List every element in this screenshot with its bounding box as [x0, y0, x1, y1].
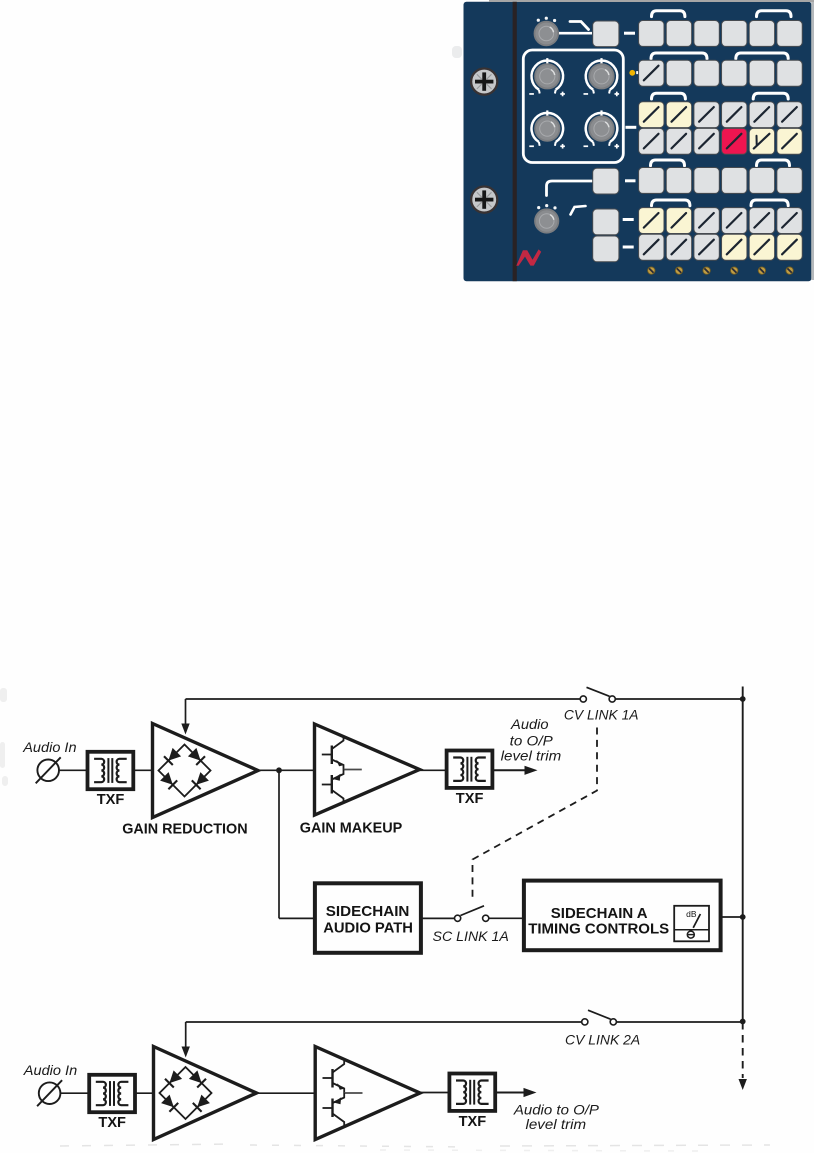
- transformer input TXF A: [88, 752, 134, 789]
- gain reduction amplifier B: [154, 1047, 257, 1140]
- switch button row5 col3: [694, 168, 719, 194]
- bracket row1 cols1-2: [652, 11, 685, 17]
- svg-text:to O/P: to O/P: [510, 733, 553, 748]
- link dash row6: [623, 218, 634, 221]
- switch button row3 col1: [639, 102, 664, 128]
- svg-text:TIMING CONTROLS: TIMING CONTROLS: [528, 920, 669, 937]
- gain makeup amplifier A: [315, 724, 420, 815]
- switch button row2 col6: [777, 60, 802, 86]
- switch button row6 col1: [639, 208, 664, 234]
- switch button row3 col5: [749, 102, 774, 128]
- switch button row3 col3: [694, 102, 719, 128]
- wire CV bus vertical: [742, 699, 744, 1022]
- indicator dots above knob K1: [537, 17, 557, 23]
- wire output A: [492, 769, 526, 771]
- scan edge sliver right: [811, 2, 814, 280]
- panel fixing screw bottom col2: [675, 267, 682, 274]
- wire switch to timing controls: [489, 917, 524, 919]
- bracket row6 cols5-6: [751, 200, 788, 206]
- arrowhead CV bus down: [739, 1079, 747, 1090]
- wire sidechain drop A: [278, 770, 280, 918]
- diode D2B: [189, 1070, 206, 1087]
- svg-text:GAIN REDUCTION: GAIN REDUCTION: [122, 821, 247, 838]
- label level trim B: [526, 1117, 587, 1132]
- indicator dots above knob K6: [537, 204, 557, 209]
- knob K2: [535, 64, 559, 88]
- label SIDECHAIN A: [551, 905, 648, 922]
- gain makeup amplifier B: [315, 1047, 420, 1140]
- svg-text:TXF: TXF: [98, 1114, 126, 1131]
- label AUDIO PATH: [323, 919, 413, 936]
- label TXF: [459, 1113, 487, 1130]
- label Audio In A: [22, 740, 76, 755]
- input connector audio input B: [37, 1080, 62, 1106]
- switch button row2 col5: [749, 60, 774, 86]
- knob group outline box: [523, 50, 623, 163]
- svg-text:CV LINK 1A: CV LINK 1A: [564, 708, 639, 723]
- diode D4A: [192, 772, 209, 789]
- bracket row1 cols5-6: [757, 11, 792, 17]
- switch button row1 col6: [777, 21, 802, 47]
- wire CV run B left: [186, 1021, 585, 1023]
- diode D2A: [188, 748, 205, 765]
- meter/trim icon inside timing controls: [674, 906, 709, 942]
- label Audio In B: [23, 1063, 77, 1078]
- switch button row6 col6: [777, 208, 802, 234]
- label Audio (out note A line1): [510, 717, 549, 732]
- switch button row1 col2: [666, 21, 691, 47]
- switch button row5 col2: [666, 168, 691, 194]
- switch button row6 col4: [722, 208, 747, 234]
- wire gain makeup to TXF B: [420, 1092, 449, 1094]
- label CV LINK 2A: [565, 1032, 640, 1047]
- diode bridge diamond A: [159, 745, 211, 797]
- switch button row5 col4: [722, 168, 747, 194]
- minus label for knob K5: [584, 145, 589, 147]
- link dash rows3-4: [626, 126, 637, 129]
- bracket row2 cols4-6: [736, 53, 788, 59]
- panel fixing screw bottom col4: [731, 267, 738, 274]
- arc scale for knob K5: [586, 113, 618, 142]
- wire output B: [495, 1092, 524, 1094]
- switch button row1 col1: [639, 21, 664, 47]
- switch button row4 col2: [666, 128, 691, 154]
- switch button row3 col4: [722, 102, 747, 128]
- label TXF: [97, 791, 125, 808]
- minus label for knob K4: [529, 145, 534, 147]
- panel fixing screw bottom col5: [758, 267, 765, 274]
- knob K6 (bottom): [535, 209, 558, 232]
- arc scale for knob K4: [532, 113, 564, 142]
- wire gain reduction out B: [257, 1092, 316, 1094]
- switch CV LINK 2A: [582, 1010, 617, 1025]
- diode D3B: [161, 1095, 178, 1112]
- link dash row1: [624, 32, 635, 35]
- switch button row4 col6: [777, 128, 802, 154]
- red maker logo zigzag: [516, 249, 541, 265]
- switch button row6 col3: [694, 208, 719, 234]
- wire TXF to gain reduction B: [135, 1092, 154, 1094]
- switch button row4 col4: [722, 128, 747, 154]
- knob K1 (top): [535, 22, 559, 46]
- arrowhead into gain reduction B: [182, 1047, 190, 1058]
- module front panel background: [464, 2, 812, 281]
- switch button row7 col4: [722, 234, 747, 260]
- minus label for knob K3: [584, 93, 589, 95]
- panel divider stripe: [513, 2, 517, 281]
- svg-text:dB: dB: [686, 909, 697, 919]
- block SIDECHAIN A TIMING CONTROLS: [524, 881, 721, 951]
- wire timing controls to CV bus: [721, 916, 743, 918]
- svg-text:TXF: TXF: [97, 791, 125, 808]
- svg-text:Audio In: Audio In: [22, 740, 76, 755]
- label SIDECHAIN: [326, 903, 410, 920]
- switch button row7 col1: [639, 234, 664, 260]
- bracket row2 cols1-3: [651, 53, 707, 59]
- wire feedback drop B: [185, 1022, 187, 1048]
- junction CV bus bottom: [740, 1019, 746, 1025]
- switch button row6 col2: [666, 208, 691, 234]
- knob K5: [589, 116, 613, 140]
- plus label for knob K3: [615, 93, 620, 95]
- switch SC LINK 1A: [455, 906, 489, 922]
- svg-text:SIDECHAIN: SIDECHAIN: [326, 903, 410, 920]
- angle mark above button B1: [570, 22, 589, 30]
- wire gain reduction out A: [258, 769, 315, 771]
- single button B1 (row1): [593, 21, 619, 47]
- wire gain makeup to TXF A: [420, 769, 447, 771]
- arc scale for knob K3: [586, 61, 618, 90]
- wire into sidechain audio path: [279, 917, 315, 919]
- switch button row5 col6: [777, 168, 802, 194]
- switch button row7 col2: [666, 234, 691, 260]
- label TXF: [456, 790, 484, 807]
- diode D4B: [193, 1095, 210, 1112]
- svg-text:TXF: TXF: [459, 1113, 487, 1130]
- switch button row5 col5: [749, 168, 774, 194]
- svg-text:level trim: level trim: [501, 748, 562, 763]
- label CV LINK 1A: [564, 708, 639, 723]
- input connector audio input A: [36, 757, 61, 783]
- switch button row7 col6: [777, 234, 802, 260]
- link dash row7: [623, 246, 634, 249]
- LED indicator: [629, 70, 635, 76]
- svg-text:level trim: level trim: [526, 1117, 587, 1132]
- scan smudge left margin: [0, 688, 8, 786]
- panel fixing screw bottom col1: [648, 267, 655, 274]
- wire knob K1 to button B1: [559, 32, 592, 35]
- scan speckle streak bottom: [60, 1144, 770, 1151]
- switch button row3 col6: [777, 102, 802, 128]
- transformer input TXF B: [89, 1075, 135, 1112]
- wire sidechain path to switch: [421, 917, 455, 919]
- arrowhead audio out A: [525, 766, 538, 775]
- angle mark near knob K6: [571, 206, 586, 215]
- switch button row4 col3: [694, 128, 719, 154]
- bracket row3 cols5-6: [753, 93, 788, 99]
- transistor pair A: [322, 736, 362, 804]
- label to O/P (out note A line2): [510, 733, 553, 748]
- diode D3A: [160, 772, 177, 789]
- svg-text:CV LINK 2A: CV LINK 2A: [565, 1032, 640, 1047]
- knob K4: [535, 116, 559, 140]
- switch button row5 col1: [639, 168, 664, 194]
- panel fixing screw bottom col6: [786, 267, 793, 274]
- arc scale for knob K2: [532, 61, 564, 90]
- label TIMING CONTROLS: [528, 920, 669, 937]
- bracket row5 cols5-6: [757, 160, 790, 166]
- single button B3 (row6): [593, 209, 619, 235]
- plus label for knob K4: [560, 145, 565, 147]
- link dash row2 (LED): [636, 71, 639, 74]
- wire CV top run A right segment: [613, 698, 743, 700]
- label Audio to O/P B: [513, 1103, 599, 1118]
- svg-text:Audio: Audio: [510, 717, 549, 732]
- single button B4 (row7): [593, 236, 619, 262]
- knob K3: [589, 64, 613, 88]
- wire TXF to gain reduction A: [133, 769, 152, 771]
- switch CV LINK 1A: [580, 687, 615, 702]
- label level trim (out note A line3): [501, 748, 562, 763]
- minus label for knob K2: [529, 93, 534, 95]
- plus label for knob K5: [615, 145, 620, 147]
- gain reduction amplifier A: [153, 724, 259, 818]
- bracket row3 cols1-2: [652, 93, 686, 99]
- label GAIN MAKEUP: [300, 820, 403, 837]
- wire feedback drop A: [185, 699, 187, 725]
- diode D1A: [164, 748, 181, 765]
- switch button row2 col4: [722, 60, 747, 86]
- switch button row7 col3: [694, 234, 719, 260]
- switch button row1 col4: [722, 21, 747, 47]
- label GAIN REDUCTION: [122, 821, 247, 838]
- switch button row4 col5: [749, 128, 774, 154]
- node CV bus stub above: [742, 687, 744, 700]
- label SC LINK 1A: [433, 929, 509, 944]
- switch button row4 col1: [639, 128, 664, 154]
- arrowhead into gain reduction A: [181, 724, 189, 735]
- switch button row3 col2: [666, 102, 691, 128]
- junction CV bus top A: [740, 696, 746, 702]
- diode bridge diamond B: [160, 1067, 212, 1119]
- panel fixing screw bottom col3: [703, 267, 710, 274]
- switch button row2 col2: [666, 60, 691, 86]
- svg-text:Audio In: Audio In: [23, 1063, 77, 1078]
- switch button row6 col5: [749, 208, 774, 234]
- svg-text:GAIN MAKEUP: GAIN MAKEUP: [300, 820, 403, 837]
- bracket row6 cols1-2: [652, 200, 690, 206]
- bracket row5 cols1-2: [651, 160, 685, 166]
- switch button row7 col5: [749, 234, 774, 260]
- panel screw top-left: [471, 69, 497, 95]
- panel screw bottom-left: [471, 187, 497, 213]
- junction sidechain tap A: [276, 767, 282, 773]
- block SIDECHAIN AUDIO PATH: [315, 883, 421, 953]
- diode D1B: [165, 1070, 182, 1087]
- dashed CV bus continuation: [742, 1022, 744, 1078]
- plus label for knob K2: [560, 93, 565, 95]
- scan smudge left of panel: [452, 46, 462, 58]
- scan edge line top: [489, 0, 814, 2]
- L-bracket wire to button B2: [547, 181, 593, 196]
- arrowhead audio out B: [524, 1088, 537, 1097]
- switch button row2 col1: [639, 60, 664, 86]
- wire input to TXF B: [60, 1092, 89, 1094]
- transistor pair B: [323, 1059, 363, 1127]
- wire CV feedback top run A: [186, 698, 584, 700]
- svg-text:TXF: TXF: [456, 790, 484, 807]
- switch button row1 col5: [749, 21, 774, 47]
- svg-text:SC LINK 1A: SC LINK 1A: [433, 929, 509, 944]
- junction CV bus mid: [740, 914, 746, 920]
- switch button row2 col3: [694, 60, 719, 86]
- transformer output TXF B: [449, 1074, 495, 1111]
- wire CV run B right: [614, 1021, 743, 1023]
- svg-text:AUDIO PATH: AUDIO PATH: [323, 919, 413, 936]
- transformer output TXF A: [447, 751, 493, 788]
- label TXF: [98, 1114, 126, 1131]
- single button B2 (row5): [593, 168, 619, 194]
- mechanical link dashed A: [473, 728, 598, 902]
- link dash row5: [625, 179, 636, 182]
- wire input to TXF A: [59, 769, 88, 771]
- svg-text:Audio to O/P: Audio to O/P: [513, 1103, 599, 1118]
- switch button row1 col3: [694, 21, 719, 47]
